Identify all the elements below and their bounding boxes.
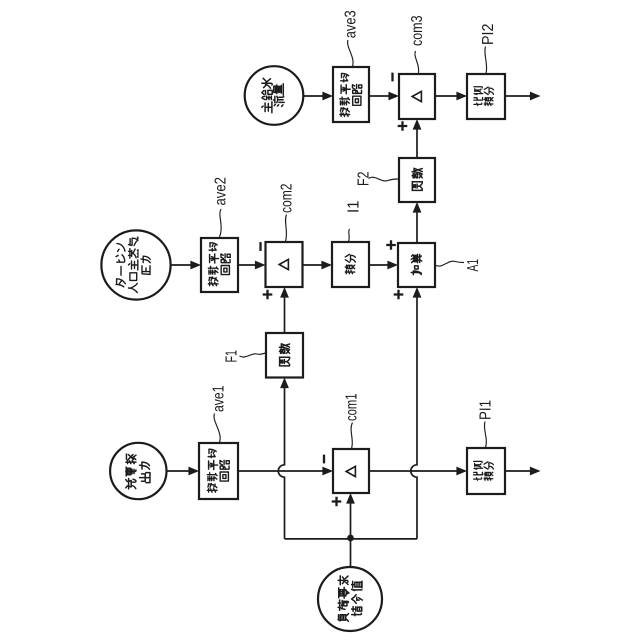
svg-text:A1: A1: [465, 259, 482, 272]
text 関数 in F2: [412, 168, 422, 190]
junction node of load demand branches: [347, 535, 354, 542]
leader line for com1: [351, 423, 352, 449]
delta symbol in com2: [279, 259, 288, 269]
wire: PI2 output P12 signal: [505, 95, 539, 97]
minus sign at com2: [259, 242, 261, 251]
text 関数 in F1: [279, 344, 289, 366]
input circle: load demand command value (負荷要求指令値): [318, 567, 382, 631]
svg-text:I1: I1: [346, 200, 363, 213]
leader line for PI1: [484, 422, 486, 448]
wire: turbine circle to ave2: [171, 264, 200, 266]
minus sign at com1: [323, 455, 325, 464]
block com1: deviation comparator (Δ): [333, 449, 369, 493]
plus sign at A1 bottom input: [394, 290, 404, 300]
leader line for I1: [349, 229, 350, 242]
leader line for com2: [286, 215, 287, 242]
plus sign at A1 left input: [386, 240, 396, 250]
plus sign at com3: [398, 121, 408, 131]
text 積分 in I1: [345, 254, 355, 273]
plus sign at com1: [332, 497, 342, 507]
block I1: integrator (積分): [332, 242, 369, 287]
wire: com3 to PI2: [435, 95, 465, 97]
wire: F1 to com2 (plus input): [284, 289, 286, 333]
delta symbol in com1: [346, 466, 355, 476]
text 移動平均/回路 in ave3: [340, 73, 362, 116]
block A1: adder (加算): [398, 243, 435, 287]
wire: junction to com1 (plus input): [350, 495, 352, 538]
wire: PI1 output P11 signal: [505, 470, 539, 472]
block F2: function generator (関数): [399, 158, 435, 202]
wire: ave2 to com2 (minus input): [238, 264, 264, 266]
wire: load demand circle up to junction node: [350, 538, 352, 567]
block PI1: proportional-integral (比例積分): [467, 448, 505, 494]
leader line for ave3: [348, 40, 353, 67]
leader line for F1: [240, 353, 266, 357]
wire: branch up to F1 input (hops over ave1-com1 wire): [278, 380, 284, 539]
text 移動平均/回路 in ave2: [208, 243, 230, 286]
svg-text:com1: com1: [344, 393, 361, 421]
text 発電機/出力 in generator circle: [126, 454, 150, 489]
svg-text:F2: F2: [356, 171, 373, 186]
minus sign at com3: [391, 73, 393, 82]
block ave2: moving average circuit (移動平均回路): [201, 238, 238, 292]
leader line for com3: [415, 51, 419, 73]
leader line for ave1: [214, 414, 220, 443]
block F1: function generator (関数): [266, 333, 303, 378]
wire: com1 to PI1: [369, 470, 465, 472]
svg-text:com3: com3: [409, 15, 426, 46]
delta symbol in com3: [412, 91, 421, 101]
wire: I1 to A1 (plus input): [369, 264, 396, 266]
block com3: deviation comparator (Δ): [399, 74, 435, 119]
plus sign at com2: [263, 290, 273, 300]
wire: generator circle to ave1: [167, 470, 198, 472]
text 負荷要求/指令値 in load demand circle: [338, 576, 362, 621]
svg-text:PI1: PI1: [478, 400, 495, 420]
leader line for ave2: [220, 209, 222, 237]
svg-text:PI2: PI2: [480, 23, 497, 45]
svg-text:ave3: ave3: [342, 10, 359, 38]
svg-text:ave2: ave2: [213, 177, 230, 206]
wire: ave1 to com1 (minus input): [238, 470, 331, 472]
text 主給水/流量 in feedwater circle: [262, 78, 284, 112]
input circle: main feedwater flow (主給水流量): [245, 66, 304, 125]
block com2: deviation comparator (Δ): [266, 242, 303, 287]
text タービン/入口主蒸気/圧力 in turbine circle: [116, 237, 150, 293]
input circle: turbine inlet main steam pressure (タービン入口主蒸気圧力): [101, 230, 170, 299]
block PI2: proportional-integral (比例積分): [467, 74, 505, 119]
wire: feedwater circle to ave3: [303, 95, 331, 97]
leader line for F2: [369, 177, 399, 181]
block ave3: moving average circuit (移動平均回路): [333, 67, 369, 122]
svg-text:F1: F1: [224, 350, 241, 363]
wire: ave3 to com3 (minus input): [369, 95, 397, 97]
text 比例/積分 in PI1: [474, 461, 494, 480]
wire: A1 to F2: [416, 204, 418, 243]
text 比例/積分 in PI2: [474, 87, 494, 106]
wire: branch up to A1 plus input (hops over com1-PI1 wire): [411, 289, 417, 539]
svg-text:ave1: ave1: [211, 385, 228, 412]
leader line for A1: [436, 261, 464, 266]
input circle: generator output (発電機出力): [110, 443, 166, 499]
wire: F2 to com3 (plus input): [416, 121, 418, 158]
text 移動平均/回路 in ave1: [207, 449, 229, 492]
leader line for PI2: [485, 47, 487, 74]
block ave1: moving average circuit (移動平均回路): [199, 443, 238, 499]
text 加算 in A1: [411, 254, 422, 274]
wire: horizontal branch line from junction: [285, 538, 418, 540]
svg-text:com2: com2: [279, 183, 296, 213]
wire: com2 to I1: [303, 264, 331, 266]
